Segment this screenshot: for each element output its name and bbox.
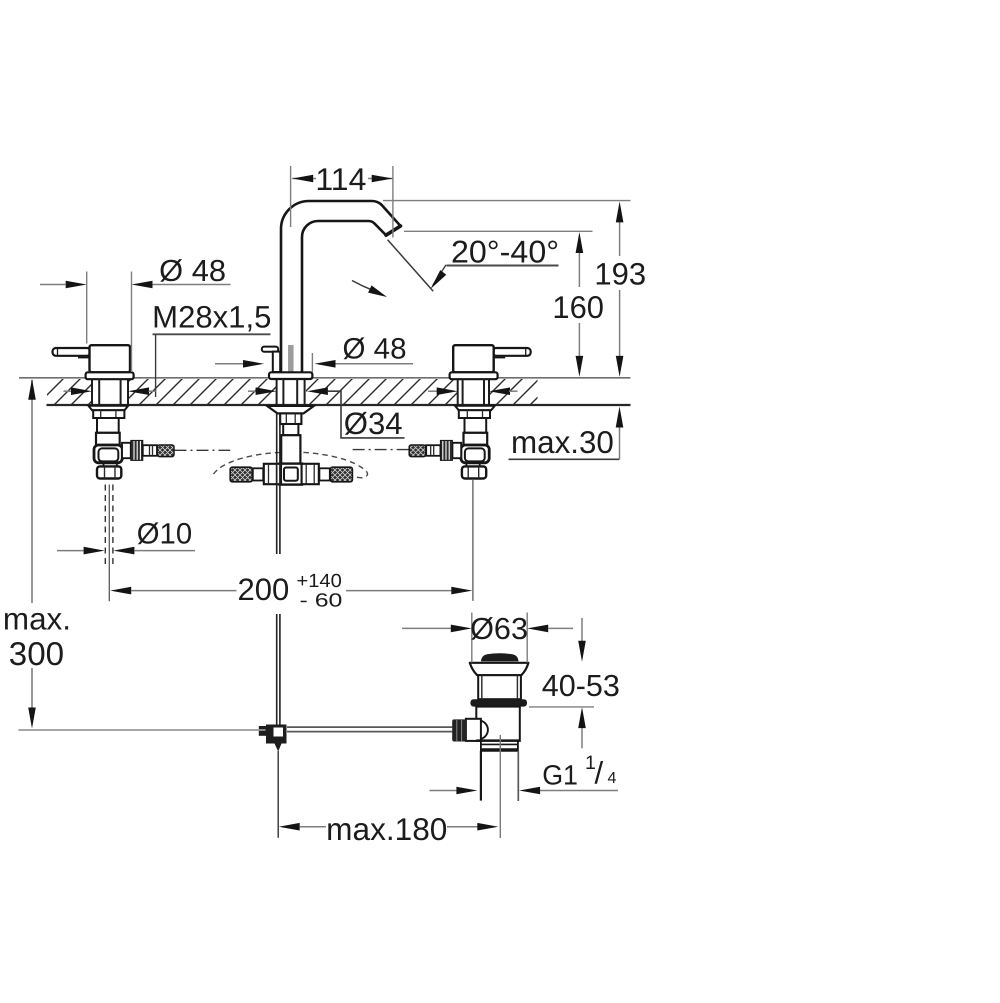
svg-text:/: / xyxy=(595,756,604,791)
svg-text:Ø 48: Ø 48 xyxy=(343,333,407,366)
svg-text:193: 193 xyxy=(594,257,646,292)
svg-text:Ø34: Ø34 xyxy=(344,406,403,441)
svg-text:M28x1,5: M28x1,5 xyxy=(152,300,271,335)
svg-text:+140: +140 xyxy=(297,571,342,592)
svg-text:Ø63: Ø63 xyxy=(470,612,528,646)
svg-text:max.180: max.180 xyxy=(326,811,447,847)
svg-text:Ø10: Ø10 xyxy=(137,518,192,551)
svg-text:max.: max. xyxy=(3,602,71,637)
svg-text:300: 300 xyxy=(9,635,64,672)
svg-text:4: 4 xyxy=(608,770,617,787)
svg-text:160: 160 xyxy=(552,289,604,325)
svg-text:G1: G1 xyxy=(542,760,578,791)
svg-text:- 60: - 60 xyxy=(300,591,343,612)
svg-text:114: 114 xyxy=(315,161,366,197)
svg-text:max.30: max.30 xyxy=(511,424,614,460)
svg-text:40-53: 40-53 xyxy=(542,669,620,703)
svg-text:20°-40°: 20°-40° xyxy=(451,234,559,270)
svg-text:Ø 48: Ø 48 xyxy=(159,254,226,288)
svg-text:200: 200 xyxy=(238,572,290,607)
